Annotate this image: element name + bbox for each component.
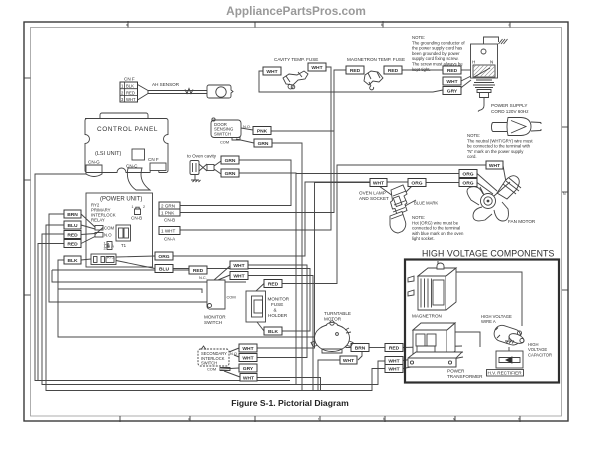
svg-text:2: 2 [143, 205, 145, 209]
svg-text:1 WHT: 1 WHT [161, 229, 175, 234]
svg-text:RY2: RY2 [107, 256, 114, 260]
svg-text:MONITOR: MONITOR [204, 315, 226, 320]
svg-text:CN-B: CN-B [164, 218, 175, 223]
svg-text:kept tight.: kept tight. [412, 67, 431, 72]
svg-text:WHT: WHT [243, 376, 254, 382]
svg-text:CN A: CN A [104, 244, 114, 249]
svg-text:GRN: GRN [225, 158, 236, 164]
svg-text:N.O: N.O [104, 233, 112, 238]
svg-text:BLK: BLK [126, 84, 134, 89]
svg-text:MONITOR: MONITOR [268, 297, 290, 302]
svg-text:COM: COM [227, 295, 236, 300]
svg-text:to Oven cavity: to Oven cavity [187, 154, 217, 159]
svg-text:RED: RED [67, 233, 78, 239]
svg-text:N: N [490, 60, 493, 65]
svg-text:HOLDER: HOLDER [268, 313, 288, 318]
svg-text:with blue mark on the oven: with blue mark on the oven [412, 231, 464, 236]
svg-text:b: b [383, 417, 385, 421]
svg-text:ORG: ORG [462, 181, 473, 187]
svg-text:The screw must always be: The screw must always be [412, 62, 463, 67]
svg-text:NOTE:: NOTE: [467, 133, 480, 138]
svg-text:MAGNETRON: MAGNETRON [412, 314, 442, 319]
svg-text:SWITCH: SWITCH [204, 320, 222, 325]
svg-text:RELAY: RELAY [91, 218, 105, 223]
svg-text:H.V. RECTIFIER: H.V. RECTIFIER [488, 371, 523, 376]
svg-text:COM: COM [104, 226, 114, 231]
svg-text:CN-B: CN-B [131, 216, 142, 221]
svg-text:RED: RED [268, 282, 279, 288]
svg-text:RED: RED [350, 68, 361, 74]
svg-text:CN F: CN F [148, 157, 159, 162]
svg-text:1 PNK: 1 PNK [161, 210, 175, 215]
svg-text:Hot (ORG) wire must be: Hot (ORG) wire must be [412, 220, 459, 225]
svg-text:WHT: WHT [233, 263, 244, 269]
svg-text:GRY: GRY [447, 89, 458, 95]
svg-text:“N” mark on the power sup: “N” mark on the power supply [467, 149, 524, 154]
svg-text:RED: RED [447, 68, 458, 74]
svg-text:CAPACITOR: CAPACITOR [528, 352, 552, 357]
svg-text:s: s [453, 417, 455, 421]
svg-text:FUSE: FUSE [271, 302, 283, 307]
svg-text:light socket.: light socket. [412, 236, 435, 241]
svg-text:cord.: cord. [467, 154, 477, 159]
svg-text:COM: COM [207, 367, 216, 372]
svg-text:N.C.: N.C. [199, 275, 207, 280]
svg-text:WHT: WHT [242, 356, 253, 362]
svg-text:2 GRN: 2 GRN [161, 203, 175, 208]
svg-text:H: H [472, 60, 475, 65]
svg-text:x: x [126, 23, 128, 27]
svg-text:Figure S-1. Pictorial Diagram: Figure S-1. Pictorial Diagram [231, 398, 349, 408]
svg-text:SWITCH: SWITCH [214, 131, 231, 136]
svg-text:RED: RED [388, 68, 399, 74]
svg-text:3: 3 [104, 247, 106, 251]
svg-text:AND SOCKET: AND SOCKET [359, 196, 389, 201]
svg-text:POWER SUPPLY: POWER SUPPLY [491, 103, 527, 108]
svg-text:be connected to the terminal w: be connected to the terminal with [467, 144, 531, 149]
svg-text:CN F: CN F [124, 77, 135, 82]
svg-text:CN-A: CN-A [164, 237, 176, 242]
svg-text:been grounded by power: been grounded by power [412, 51, 460, 56]
svg-text:WHT: WHT [311, 65, 322, 71]
svg-text:OVEN LAMP: OVEN LAMP [359, 191, 386, 196]
svg-text:WIRE A: WIRE A [481, 319, 496, 324]
svg-text:PNK: PNK [257, 129, 268, 135]
svg-text:The neutral (WHT/GRY) wire mus: The neutral (WHT/GRY) wire must [467, 138, 533, 143]
svg-text:BLUE MARK: BLUE MARK [414, 201, 438, 206]
svg-text:CAVITY TEMP. FUSE: CAVITY TEMP. FUSE [274, 57, 318, 62]
svg-text:BLU: BLU [67, 223, 78, 229]
svg-text:RED: RED [67, 242, 78, 248]
svg-text:POWER: POWER [447, 369, 465, 374]
svg-text:WHT: WHT [242, 346, 253, 352]
svg-text:n: n [518, 417, 520, 421]
svg-text:COM: COM [220, 140, 229, 145]
svg-text:BRN: BRN [355, 346, 366, 352]
svg-text:T1: T1 [121, 243, 127, 248]
svg-text:GRN: GRN [225, 171, 236, 177]
svg-text:BLK: BLK [67, 258, 78, 264]
svg-text:RED: RED [389, 346, 400, 352]
svg-text:FAN MOTOR: FAN MOTOR [508, 219, 536, 224]
svg-text:CONTROL PANEL: CONTROL PANEL [97, 126, 158, 133]
svg-text:HIGH VOLTAGE COMPONENTS: HIGH VOLTAGE COMPONENTS [422, 249, 555, 259]
svg-text:MAGNETRON TEMP. FUSE: MAGNETRON TEMP. FUSE [347, 57, 405, 62]
svg-text:SWITCH: SWITCH [201, 361, 217, 366]
svg-text:WHT: WHT [388, 367, 399, 373]
svg-text:TRANSFORMER: TRANSFORMER [447, 374, 483, 379]
svg-text:WHT: WHT [343, 358, 354, 364]
svg-text:BLK: BLK [268, 329, 279, 335]
svg-text:the power supply cord has: the power supply cord has [412, 46, 462, 51]
svg-text:WHT: WHT [446, 79, 457, 85]
svg-text:ORG: ORG [411, 181, 422, 187]
svg-text:AppliancePartsPros.com: AppliancePartsPros.com [226, 4, 366, 18]
svg-text:connected to the terminal: connected to the terminal [412, 226, 460, 231]
svg-text:(POWER UNIT): (POWER UNIT) [100, 197, 142, 203]
svg-text:BRN: BRN [67, 212, 78, 218]
svg-text:N.O.: N.O. [243, 124, 251, 129]
svg-text:CORD 120V 60Hz: CORD 120V 60Hz [491, 109, 529, 114]
svg-text:TURNTABLE: TURNTABLE [324, 311, 351, 316]
svg-text:ORG: ORG [462, 172, 473, 178]
svg-text:N.O: N.O [230, 351, 237, 356]
svg-text:ORG: ORG [158, 254, 169, 260]
svg-text:WHT: WHT [373, 181, 384, 187]
svg-text:RED: RED [193, 268, 204, 274]
svg-text:(LSI UNIT): (LSI UNIT) [95, 151, 121, 157]
svg-text:WHT: WHT [233, 274, 244, 280]
svg-text:WHT: WHT [266, 69, 277, 75]
svg-text:The grounding conductor of: The grounding conductor of [412, 40, 465, 45]
svg-text:supply cord fixing screw.: supply cord fixing screw. [412, 56, 459, 61]
svg-text:GRN: GRN [258, 141, 269, 147]
svg-text:&: & [274, 308, 277, 313]
svg-text:BLU: BLU [159, 267, 170, 273]
svg-text:AH SENSOR: AH SENSOR [152, 82, 180, 87]
svg-text:WHT: WHT [126, 97, 136, 102]
svg-text:1: 1 [132, 205, 134, 209]
svg-text:b: b [381, 23, 383, 27]
svg-text:RED: RED [126, 90, 135, 95]
svg-text:GRY: GRY [243, 366, 254, 372]
svg-text:CN-G: CN-G [88, 160, 100, 165]
svg-text:WHT: WHT [489, 163, 500, 169]
svg-text:WHT: WHT [388, 359, 399, 365]
svg-text:o: o [188, 417, 190, 421]
svg-text:NOTE:: NOTE: [412, 35, 425, 40]
svg-text:1: 1 [104, 242, 106, 246]
svg-text:>: > [508, 23, 510, 27]
svg-text:NOTE:: NOTE: [412, 215, 425, 220]
